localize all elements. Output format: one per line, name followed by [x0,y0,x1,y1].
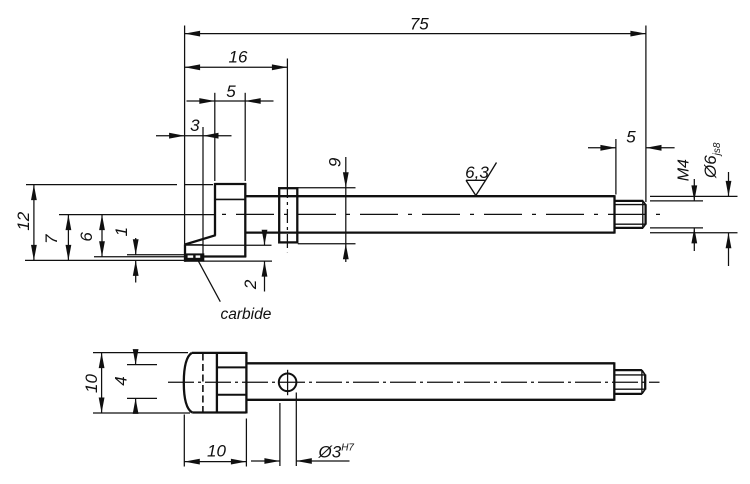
svg-text:Ø3H7: Ø3H7 [318,443,355,462]
collar vertical centerline [286,184,288,252]
blade left edge [184,244,186,261]
carbide leader line [199,261,221,301]
blade foot top line [185,244,204,246]
svg-text:M4: M4 [676,159,693,181]
extension line 9 bottom [298,243,356,245]
svg-text:9: 9 [326,157,345,167]
extension line 4 top [127,364,157,366]
dimension diam3 H7 [251,460,280,462]
thread crest bottom [615,227,644,229]
svg-text:1: 1 [112,227,131,236]
extension line M4 bottom [650,227,703,229]
thread root bottom [615,223,646,225]
extension line 10h right [245,419,247,467]
carbide insert block [184,253,204,261]
dimension 5 thread [588,147,616,149]
svg-text:12: 12 [14,211,33,230]
shaft top edge [245,195,614,197]
shaft end face bottom view [613,362,615,401]
svg-text:3: 3 [190,116,200,135]
dimension 9 [345,157,347,262]
extension line 5 left [214,93,216,181]
hidden line carbide insert [202,354,204,413]
clamping collar [279,188,297,242]
shaft top edge bottom view [246,362,614,364]
thread crest bottom bottom view [614,393,642,395]
centerline bottom view [168,381,660,383]
extension line 10h left [183,415,185,467]
cross hole diam3 [279,374,297,392]
head left edge [214,183,216,235]
extension line 5 right [244,93,246,181]
dome bottom edge [192,411,246,413]
svg-text:2: 2 [241,279,260,290]
blade flat bottom [217,394,247,396]
svg-text:7: 7 [42,234,61,244]
extension line 6 bottom [94,256,186,258]
svg-text:6,3: 6,3 [465,163,489,182]
extension line M4 top [650,200,703,202]
extension line diam6 bottom [650,232,738,234]
dimension 16 [185,66,288,68]
hole vertical centerline [287,370,289,395]
thread chamfer top bottom view [642,370,645,375]
extension line 3 right [202,127,204,254]
dimension 3 [156,135,232,137]
svg-text:6: 6 [77,232,96,242]
dimension 4 [135,353,137,365]
blade chamfer diagonal [185,235,216,244]
dimension 7 [67,215,69,261]
thread chamfer arc line [642,201,644,228]
shaft end face [613,195,615,233]
svg-text:10: 10 [82,374,101,393]
extension line head top (12) [26,184,177,186]
head block right edge bottom view [245,352,247,413]
surface finish symbol 6,3 [466,179,486,181]
extension line 10 bottom [93,412,190,414]
head bottom edge [203,255,246,257]
dimension M4 [693,179,695,201]
shaft bottom edge bottom view [246,399,614,401]
extension line 9 top [298,187,356,189]
extension line centerline left (7/6) [59,214,214,216]
thread chamfer top [643,201,646,205]
dimension 6 [101,215,103,257]
dimension 75 [185,33,646,35]
shaft centerline [222,213,661,215]
extension line 16 right / collar [286,59,288,185]
extension line 1 top [127,254,184,256]
dimension 12 [33,185,35,261]
dome top edge [192,352,247,354]
dimension diam6 js8 [728,172,730,196]
extension line blade bottom (12/7/1) [25,259,184,261]
head right edge [244,183,246,257]
svg-text:carbide: carbide [221,306,272,323]
svg-text:5: 5 [626,128,636,147]
extension line right (75) [645,26,647,203]
dimension 1 [135,238,137,255]
extension line 2 bottom [204,260,272,262]
dimension 10 vertical [101,353,103,413]
extension line diam6 top [650,195,738,197]
head top edge [214,183,246,185]
svg-text:4: 4 [112,376,131,385]
shaft bottom edge [245,231,614,233]
thread end face bottom view [644,375,646,390]
svg-text:10: 10 [207,442,226,461]
svg-text:Ø6js8: Ø6js8 [701,142,723,179]
thread chamfer bottom [643,224,646,228]
extension line 10 top [93,352,188,354]
thread root top bottom view [614,374,645,376]
thread end face [644,204,646,224]
thread chamfer line bottom view [641,370,643,394]
dimension 2 [264,233,266,246]
extension line left (75/16/3) [184,26,186,245]
thread root bottom bottom view [614,388,645,390]
extension line diam3 right [295,393,297,467]
extension line 5 thread left [615,139,617,195]
thread root top [615,204,646,206]
dimension 5 [187,100,274,102]
svg-text:5: 5 [226,82,236,101]
extension line diam3 left [279,403,281,466]
extension line 4 bottom [127,397,157,399]
blade flat top [217,366,247,368]
dome / square boundary [216,353,218,413]
thread crest top [615,200,644,202]
dimension 10 horizontal [184,461,246,463]
extension line 2 top [204,244,272,246]
svg-text:16: 16 [229,48,248,67]
thread chamfer bottom bottom view [642,389,645,394]
svg-text:75: 75 [410,15,429,34]
head chamfer line [215,198,245,200]
thread crest top bottom view [614,369,642,371]
dome left arc [184,353,192,413]
